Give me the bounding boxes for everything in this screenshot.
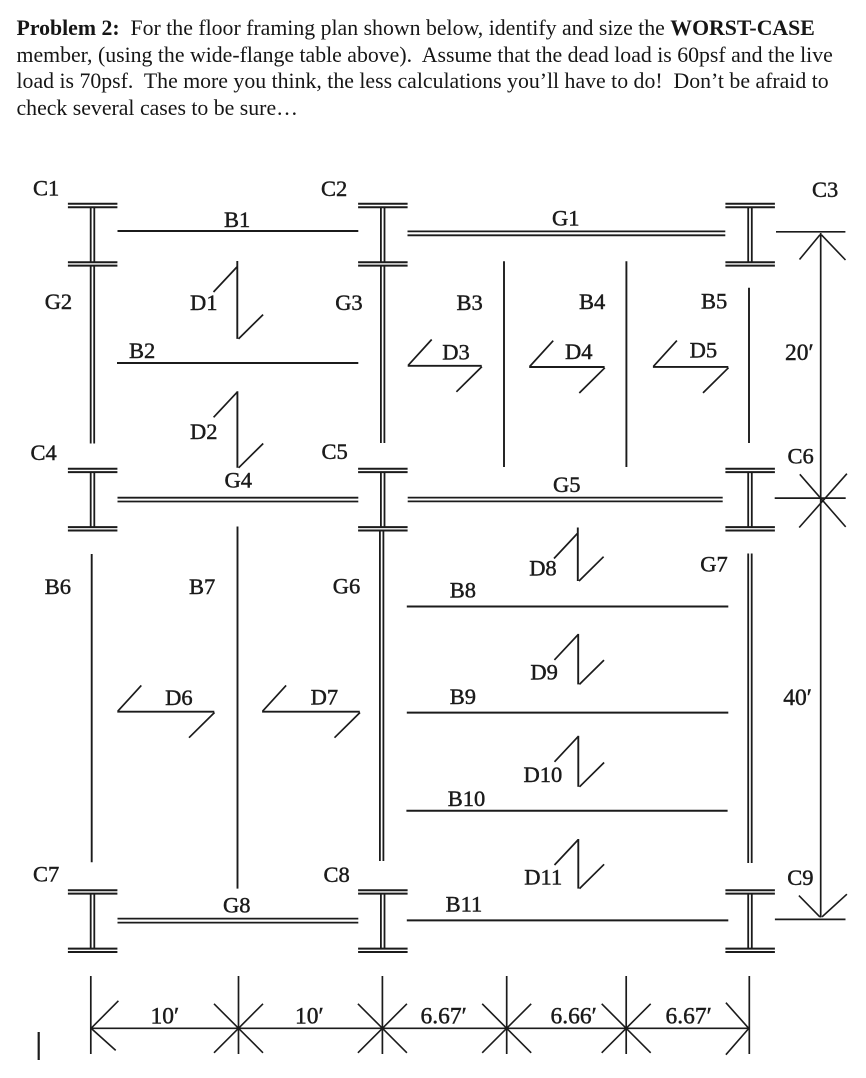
svg-text:D2: D2	[190, 419, 218, 444]
right dimension arrow bottom	[799, 894, 847, 917]
girder G4	[118, 498, 359, 502]
right dimension extension line top	[776, 231, 845, 233]
beam B6	[91, 554, 93, 862]
svg-text:D10: D10	[524, 762, 563, 787]
right dimension tick cross middle	[799, 474, 847, 528]
svg-text:C6: C6	[788, 444, 814, 469]
double-angle D8	[554, 528, 604, 582]
column C9	[725, 890, 775, 952]
svg-text:B6: B6	[45, 574, 71, 599]
svg-text:D8: D8	[529, 556, 557, 581]
svg-text:D6: D6	[165, 685, 193, 710]
svg-text:C9: C9	[787, 865, 813, 890]
right dimension extension line middle	[775, 497, 846, 499]
column C3	[725, 204, 775, 266]
svg-text:B2: B2	[129, 338, 155, 363]
bottom dimension tick cross at x=506.7	[482, 1004, 531, 1053]
double-angle D1	[214, 261, 264, 339]
svg-text:G4: G4	[225, 468, 253, 493]
svg-text:C3: C3	[812, 177, 838, 202]
girder G1	[408, 231, 726, 235]
svg-text:10′: 10′	[295, 1004, 324, 1030]
bottom dimension tick cross at x=238.5	[214, 1004, 263, 1053]
beam B1	[118, 230, 359, 232]
beam B8	[407, 606, 729, 608]
svg-text:D1: D1	[190, 290, 218, 315]
bottom dimension tick cross at x=382.4	[358, 1004, 407, 1053]
svg-text:20′: 20′	[785, 340, 814, 366]
svg-text:6.66′: 6.66′	[551, 1004, 597, 1030]
right dimension extension line bottom	[775, 918, 846, 920]
column C6	[725, 469, 775, 531]
svg-text:G5: G5	[553, 472, 581, 497]
column C2	[358, 204, 408, 266]
bottom dimension extension line at beam line B4	[625, 976, 627, 1054]
svg-text:C8: C8	[324, 862, 350, 887]
svg-text:B10: B10	[448, 786, 486, 811]
bottom dimension extension line at column line C	[381, 976, 383, 1054]
bottom dimension extension line at column line B	[238, 976, 240, 1054]
double-angle D4	[529, 341, 605, 393]
column C7	[68, 890, 118, 952]
beam B4	[625, 261, 627, 467]
svg-text:G1: G1	[552, 206, 580, 231]
svg-text:D5: D5	[690, 338, 718, 363]
svg-text:B4: B4	[579, 289, 605, 314]
right dimension arrow top	[800, 235, 846, 260]
bottom dimension extension line at column line A	[90, 976, 92, 1054]
double-angle D9	[554, 634, 604, 685]
bottom dimension extension line at column line D	[748, 976, 750, 1054]
beam B10	[406, 810, 727, 812]
right dimension line	[820, 233, 822, 918]
svg-text:B1: B1	[224, 207, 250, 232]
column C4	[68, 469, 118, 531]
double-angle D3	[408, 340, 482, 392]
beam B11	[407, 919, 729, 921]
svg-text:40′: 40′	[783, 685, 812, 711]
beam B2	[117, 362, 358, 364]
double-angle D2	[214, 391, 264, 468]
svg-text:D9: D9	[530, 660, 558, 685]
girder G7	[748, 554, 752, 864]
svg-text:B9: B9	[450, 684, 476, 709]
beam B5	[748, 288, 750, 443]
svg-text:D7: D7	[311, 685, 339, 710]
svg-text:G2: G2	[45, 289, 72, 314]
svg-text:D11: D11	[524, 865, 562, 890]
beam B3	[503, 261, 505, 467]
girder G5	[408, 498, 723, 502]
svg-text:B5: B5	[701, 289, 727, 314]
svg-text:C5: C5	[322, 439, 348, 464]
svg-text:6.67′: 6.67′	[666, 1004, 712, 1030]
beam B7	[237, 527, 239, 889]
column C1	[68, 204, 118, 266]
double-angle D10	[555, 736, 605, 787]
double-angle D5	[653, 341, 729, 393]
svg-text:B3: B3	[457, 290, 483, 315]
girder G3	[381, 266, 385, 443]
beam B9	[407, 712, 729, 714]
svg-text:6.67′: 6.67′	[421, 1004, 467, 1030]
svg-text:C1: C1	[33, 176, 59, 201]
svg-text:B8: B8	[450, 578, 476, 603]
double-angle D6	[117, 685, 214, 737]
svg-text:10′: 10′	[151, 1004, 180, 1030]
double-angle D7	[262, 685, 360, 737]
svg-text:G7: G7	[700, 552, 728, 577]
svg-text:G8: G8	[223, 893, 251, 918]
problem statement paragraph	[17, 15, 863, 121]
bottom dimension extension line at beam line B3	[506, 976, 508, 1054]
svg-text:C4: C4	[31, 440, 57, 465]
svg-text:G6: G6	[333, 574, 361, 599]
svg-text:C2: C2	[321, 176, 347, 201]
svg-text:G3: G3	[335, 290, 363, 315]
svg-text:C7: C7	[33, 862, 59, 887]
bottom dimension arrow left	[91, 1001, 118, 1051]
svg-text:B7: B7	[189, 574, 215, 599]
girder G8	[118, 919, 359, 923]
bottom dimension arrow right	[726, 1003, 749, 1055]
svg-text:B11: B11	[446, 892, 483, 917]
girder G2	[91, 266, 95, 444]
girder G6	[380, 532, 384, 862]
double-angle D11	[555, 839, 605, 889]
column C5	[358, 469, 408, 531]
bottom dimension line	[91, 1027, 750, 1029]
stray scan mark	[38, 1032, 40, 1060]
bottom dimension tick cross at x=626.2	[602, 1004, 651, 1053]
svg-text:D3: D3	[442, 340, 470, 365]
column C8	[358, 890, 408, 952]
svg-text:D4: D4	[565, 339, 593, 364]
